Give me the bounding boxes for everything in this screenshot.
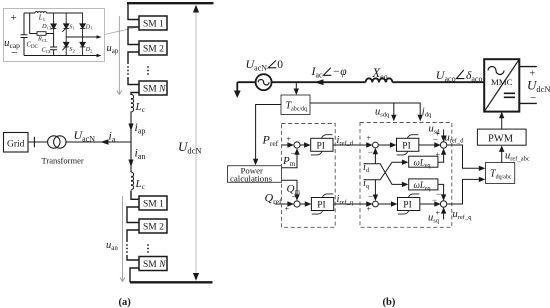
arrowhead u_sdq into dashed box — [391, 115, 396, 122]
inductor L1 — [35, 12, 47, 13]
SM 2 (upper) box — [139, 41, 167, 55]
MMC converter block — [484, 59, 519, 111]
gain block wL_eq (lower) — [409, 179, 438, 190]
svg-text:+: + — [285, 205, 290, 214]
MMC dc stub + — [519, 66, 537, 68]
svg-text:CCL: CCL — [42, 47, 52, 54]
wire: SM output mid terminal — [66, 36, 98, 38]
summer d (current loop) — [373, 142, 379, 148]
svg-text:+: + — [436, 130, 441, 139]
svg-text:ian: ian — [135, 146, 146, 162]
dc top rail — [127, 2, 214, 4]
svg-text:ia: ia — [109, 129, 116, 145]
svg-text:Lc: Lc — [135, 101, 146, 114]
wire: lower SM N to dc bottom rail — [130, 268, 139, 282]
svg-text:UdcN: UdcN — [178, 139, 202, 156]
svg-text:SM 1: SM 1 — [143, 20, 164, 30]
svg-text:PI: PI — [317, 201, 325, 211]
capacitor C_CL plates — [50, 47, 57, 50]
wire: summer q to PI — [378, 203, 394, 205]
ellipsis dots upper arm (bus) — [127, 66, 129, 75]
wire: lower SM1 to SM2 — [127, 207, 139, 223]
wire: SM2 down to dots — [128, 52, 139, 64]
svg-text:uref_q: uref_q — [453, 209, 473, 221]
svg-text:iap: iap — [135, 120, 146, 136]
PWM block — [477, 129, 526, 145]
svg-text:−: − — [530, 92, 536, 104]
wire: summer P to PI — [300, 144, 307, 146]
svg-text:−: − — [368, 147, 373, 157]
inductor L_c upper — [131, 94, 134, 112]
wire: PI d to summer ud — [419, 144, 438, 146]
summer Q — [294, 201, 300, 207]
ground stub — [236, 82, 238, 91]
svg-text:uref_d: uref_d — [445, 133, 465, 145]
svg-text:usdq: usdq — [375, 107, 390, 119]
transform block T_dq/abc — [486, 163, 515, 184]
PI controller (Q loop) — [311, 194, 333, 214]
svg-text:Uaco: Uaco — [436, 68, 456, 84]
wire: inset left vertical (bottom) — [23, 38, 25, 56]
diode D_CL — [51, 13, 56, 34]
wire: lower inductor to SM1 lower — [131, 191, 139, 200]
svg-text:RCL: RCL — [37, 36, 48, 43]
arrow into T_abc/dq — [295, 82, 297, 91]
svg-text:SM 2: SM 2 — [143, 223, 164, 233]
ellipsis dots upper arm (column) — [147, 66, 149, 75]
wire: D_CL node down to C_CL — [53, 34, 55, 48]
inductor X_eq — [366, 78, 393, 82]
arrowhead i_dq into dashed box — [418, 115, 423, 122]
diode D2 — [80, 37, 85, 56]
wire: i_ref_q to dq summer — [334, 203, 370, 205]
svg-text:+: + — [367, 134, 372, 143]
arrowhead i_ap — [128, 124, 133, 132]
svg-text:calculations: calculations — [230, 174, 273, 184]
wire: u_ref_d to T_dq/abc — [447, 145, 483, 168]
wire: upper inductor to node A with i_ap arrow — [130, 112, 132, 143]
wire: C_CL to bottom rail — [53, 50, 55, 56]
wire: Q_m feedback — [281, 180, 297, 197]
wire: P_m feedback — [281, 152, 297, 168]
svg-text:Pref: Pref — [262, 133, 279, 149]
summer uq — [440, 201, 446, 207]
transformer T1 — [48, 136, 60, 148]
wire: ac main line (source to MMC) — [237, 81, 484, 83]
switch S2 (IGBT with gate stroke) — [62, 37, 69, 56]
wire: lower SM2 down to dots — [127, 230, 139, 242]
svg-text:Grid: Grid — [7, 140, 25, 150]
MMC dc stub - — [519, 102, 537, 104]
svg-text:SM N: SM N — [143, 260, 166, 270]
svg-text:−φ: −φ — [333, 66, 348, 78]
wire: Q_ref into summer — [275, 203, 291, 205]
wire: i_ref_d to dq summer — [333, 144, 370, 146]
svg-text:SM N: SM N — [143, 85, 166, 95]
wire: resistor to D_CL node — [46, 33, 54, 35]
SM 2 (lower) box — [139, 219, 167, 233]
wire: inset top rail — [24, 12, 83, 14]
arrowhead i_a (pointing left) — [101, 139, 109, 145]
svg-text:UacN: UacN — [74, 128, 96, 144]
wire: i_q line crossing to upper wL_eq — [364, 162, 406, 180]
svg-text:+: + — [11, 12, 17, 24]
svg-text:S1: S1 — [69, 23, 75, 30]
wire: P_ref into summer — [282, 144, 291, 146]
wire: PWM to MMC — [501, 115, 503, 129]
PI controller (P loop) — [311, 135, 333, 155]
wire: i_d line crossing to lower wL_eq — [364, 164, 406, 185]
gain block wL_eq (upper) — [409, 156, 438, 167]
ground arrowhead — [234, 91, 241, 99]
svg-text:SM 2: SM 2 — [143, 45, 164, 55]
wire: dots to SM N — [128, 77, 139, 85]
svg-text:Xeq: Xeq — [372, 66, 388, 82]
wire: u_sdq / i_dq bus — [310, 103, 420, 118]
arrowhead I_ac (pointing left on ac line) — [315, 79, 324, 85]
summer ud — [440, 142, 446, 148]
svg-text:D2: D2 — [85, 46, 94, 53]
svg-text:−: − — [432, 195, 437, 205]
Grid box — [4, 133, 29, 153]
arrowhead U_dcN top — [193, 5, 199, 13]
PI controller (q current) — [398, 194, 420, 214]
svg-text:uref_abc: uref_abc — [505, 151, 530, 163]
inductor L_c lower — [131, 172, 134, 190]
capacitor C_DC plates — [21, 35, 28, 38]
svg-text:+: + — [436, 150, 441, 159]
svg-text:Lc: Lc — [135, 178, 146, 191]
wire: upper wL_eq to summer ud (from below) — [438, 152, 444, 163]
wire: tap to clamp resistor — [30, 13, 37, 34]
svg-text:PI: PI — [402, 142, 410, 152]
wire: u_sdq branch — [393, 103, 395, 118]
SM detail inset frame — [4, 9, 105, 62]
svg-text:(b): (b) — [383, 297, 396, 308]
wire: grid to transformer — [28, 141, 48, 143]
SM 1 (upper) box — [139, 16, 167, 30]
wire: SM1 to SM2 — [128, 27, 139, 45]
SM 1 (lower) box — [139, 196, 167, 210]
arrowhead into power calculations — [253, 159, 258, 166]
svg-text:Transformer: Transformer — [42, 156, 84, 166]
svg-text:0: 0 — [277, 59, 283, 71]
svg-text:uap: uap — [107, 43, 119, 55]
summer q (current loop) — [373, 201, 379, 207]
wire: i_d feedback up into summer d — [374, 151, 376, 164]
transform block T_abc/dq — [281, 95, 310, 115]
svg-text:D1: D1 — [85, 23, 94, 30]
svg-text:UacN: UacN — [246, 57, 268, 73]
wire: u_sd into summer ud — [443, 130, 445, 139]
svg-text:−: − — [368, 192, 373, 202]
svg-text:uan: uan — [106, 240, 118, 252]
grid connection tick — [33, 137, 35, 147]
switch S1 (IGBT with gate stroke) — [62, 13, 69, 37]
arrowhead SM bottom terminal — [97, 54, 102, 58]
svg-text:idq: idq — [422, 107, 432, 119]
wire: dots to lower SM N — [127, 255, 139, 260]
resistor R_CL — [37, 32, 46, 36]
wire: inset left vertical (top) — [23, 13, 25, 35]
summer P — [294, 142, 300, 148]
wire: node A down to lower inductor with i_an arrow — [130, 142, 132, 172]
wire: i_q feedback down into summer q — [374, 180, 376, 198]
wire: PI q to summer uq — [420, 203, 438, 205]
svg-text:CDC: CDC — [27, 42, 39, 50]
svg-text:(a): (a) — [119, 297, 132, 308]
arrowhead SM mid terminal — [97, 35, 102, 39]
svg-text:Qm: Qm — [287, 183, 301, 196]
wire: upper arm bus to SM1 — [128, 3, 139, 19]
PI controller (d current) — [397, 135, 419, 155]
wire: u_sq into summer uq from below — [443, 211, 445, 220]
dashed box outer loop — [282, 124, 336, 228]
wire: summer d to PI — [378, 144, 393, 146]
power calculations block — [228, 166, 282, 183]
diode D1 — [80, 13, 85, 37]
svg-text:PWM: PWM — [488, 134, 514, 145]
arrowhead i_an — [128, 160, 133, 168]
wire: SM bottom rail — [24, 55, 99, 57]
dc bottom rail — [130, 281, 213, 283]
SM N (upper) box — [139, 81, 167, 95]
wire: T_dq/abc to PWM — [501, 149, 503, 163]
svg-text:UdcN: UdcN — [527, 78, 550, 95]
svg-text:PI: PI — [317, 142, 325, 152]
svg-text:+: + — [367, 205, 372, 214]
ellipsis dots lower arm (column) — [147, 244, 149, 253]
svg-text:δaco: δaco — [466, 70, 482, 84]
ellipsis dots lower arm (bus) — [126, 244, 128, 253]
svg-text:PI: PI — [403, 201, 411, 211]
wire: lower wL_eq to summer uq (from above) — [438, 184, 444, 197]
wire: u_ref_q to T_dq/abc — [447, 179, 483, 204]
U_dcN measurement line — [195, 10, 197, 276]
wire: summer Q to PI — [300, 203, 308, 205]
svg-text:MMC: MMC — [491, 77, 513, 87]
u_ap measurement arrow — [117, 16, 122, 95]
wire: T output to power calculations — [256, 105, 281, 162]
SM N (lower) box — [139, 257, 167, 271]
svg-text:Iac: Iac — [311, 64, 324, 80]
wire: transformer to arm node A — [66, 141, 131, 143]
dashed box inner loop — [360, 123, 452, 228]
u_an measurement arrow — [120, 196, 125, 282]
callout line from inset to SM stack — [105, 27, 141, 35]
svg-text:+: + — [287, 135, 292, 144]
ac source V1 — [256, 74, 272, 90]
svg-text:ucap: ucap — [4, 37, 20, 50]
svg-text:+: + — [436, 209, 441, 218]
wire: SM N to upper arm inductor — [131, 93, 139, 96]
svg-text:L1: L1 — [38, 15, 46, 23]
svg-text:S2: S2 — [69, 46, 75, 53]
svg-text:SM 1: SM 1 — [143, 200, 164, 210]
arrowhead U_dcN bottom — [193, 273, 199, 281]
